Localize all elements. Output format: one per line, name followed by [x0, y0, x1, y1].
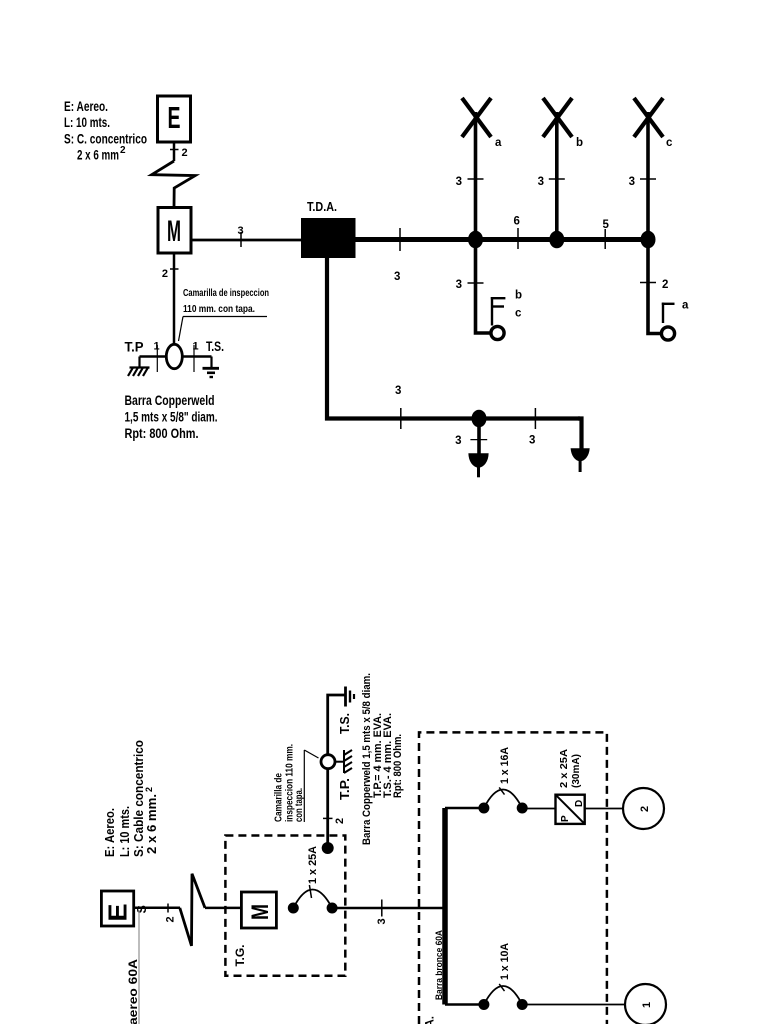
svg-text:b: b [515, 290, 522, 302]
box T.D.A. (tablero) filled [301, 218, 356, 258]
text Barra Copperweld rotated [361, 673, 404, 845]
svg-text:2: 2 [662, 279, 668, 291]
svg-text:3: 3 [456, 176, 462, 188]
svg-text:3: 3 [395, 385, 401, 397]
ground T.S. bars rotated [346, 687, 355, 707]
diff box P/D [556, 749, 586, 824]
outlet dome 1 [468, 453, 488, 467]
svg-text:E: Aereo.: E: Aereo. [103, 808, 117, 857]
svg-text:D: D [574, 800, 585, 807]
svg-text:1: 1 [154, 341, 160, 353]
wire M to TDA [191, 239, 302, 242]
ground T.P. hatched rotated [335, 750, 352, 773]
branch 10A wire [445, 1003, 484, 1006]
svg-text:3: 3 [629, 176, 635, 188]
ground bus horizontal [140, 355, 212, 358]
svg-text:L: 10 mts.: L: 10 mts. [64, 114, 110, 130]
svg-text:T.S.: T.S. [338, 713, 352, 734]
wire to diff box [522, 808, 556, 810]
svg-text:1: 1 [641, 1002, 653, 1008]
tick 2 below E [170, 149, 179, 151]
zigzag rotated [180, 874, 205, 946]
svg-text:2 x 25A: 2 x 25A [558, 749, 570, 788]
camarilla leader rotated [304, 750, 318, 758]
svg-text:Rpt: 800 Ohm.: Rpt: 800 Ohm. [125, 426, 199, 441]
junction dot 1 [468, 231, 483, 249]
lamp wire b [555, 112, 559, 240]
wire breaker to barra [332, 907, 445, 910]
tick 1 right [193, 345, 195, 372]
corner down to outlet 2 [578, 419, 582, 450]
tick 3 right segment [534, 408, 536, 429]
box M rotated [241, 892, 276, 928]
svg-text:1 x 16A: 1 x 16A [499, 747, 511, 784]
TDA down wire + bottom branch [327, 258, 580, 419]
svg-text:110 mm. con tapa.: 110 mm. con tapa. [183, 303, 255, 315]
tick 3 bottom branch [400, 408, 402, 429]
svg-text:1,5 mts x 5/8" diam.: 1,5 mts x 5/8" diam. [125, 410, 218, 425]
T.G. dashed box [225, 836, 345, 976]
svg-text:con tapa.: con tapa. [294, 788, 305, 822]
svg-text:a: a [682, 300, 689, 312]
svg-text:3: 3 [238, 225, 244, 237]
lamp X a [462, 98, 491, 137]
svg-text:2: 2 [182, 147, 188, 159]
svg-text:Camarilla de inspeccion: Camarilla de inspeccion [183, 287, 269, 299]
svg-text:6: 6 [514, 216, 520, 228]
svg-text:T.S.: T.S. [206, 339, 224, 354]
tick 3 lamp b [549, 178, 565, 180]
zigzag lightning [152, 161, 196, 207]
svg-text:Rpt: 800 Ohm.: Rpt: 800 Ohm. [392, 734, 404, 798]
svg-text:S: Cable concentrico: S: Cable concentrico [132, 740, 146, 857]
lamp X b [543, 98, 572, 137]
wire to circle 1 [522, 1004, 625, 1006]
svg-text:T.D.A.: T.D.A. [423, 1016, 437, 1024]
lamp wire c [646, 112, 650, 240]
camarilla underline rotated [303, 750, 305, 822]
ground T.S. (3 bars) [203, 357, 220, 378]
tick 3 after TDA [399, 228, 401, 251]
tick 2 on ground wire [323, 817, 333, 819]
camarilla leader [179, 317, 184, 342]
tick 6 [517, 228, 519, 249]
breaker 1x25A [288, 846, 338, 914]
svg-text:1: 1 [193, 341, 199, 353]
wire to circle 2 [585, 808, 623, 810]
svg-text:2 x 6 mm.: 2 x 6 mm. [145, 794, 159, 854]
svg-text:(30mA): (30mA) [570, 754, 582, 788]
svg-text:L: 10 mts.: L: 10 mts. [118, 806, 132, 857]
svg-text:E: E [103, 904, 133, 922]
svg-text:P: P [560, 815, 571, 822]
tick 2 [167, 904, 169, 913]
box E (acometida) [158, 96, 191, 142]
wire E to zigzag [173, 142, 176, 161]
tick 3 [381, 900, 383, 917]
svg-text:S: S [135, 905, 149, 913]
ground T.P. (hatched) [128, 357, 150, 377]
camarilla note rotated [274, 744, 306, 822]
junction dot 2 [549, 231, 564, 249]
wire zigzag to M [205, 907, 242, 910]
circle 1 [625, 984, 666, 1024]
text Barra Copperweld [125, 393, 218, 441]
ground tap dot [322, 842, 334, 854]
tick 3 [470, 439, 487, 441]
breaker 1x16A [478, 747, 527, 814]
svg-text:2: 2 [144, 787, 154, 792]
box E rotated [101, 891, 133, 926]
svg-text:2: 2 [334, 818, 346, 824]
circle 2 [623, 788, 664, 829]
svg-text:3: 3 [394, 271, 400, 283]
svg-text:1 x 10A: 1 x 10A [499, 943, 511, 980]
box M (medidor) [158, 208, 191, 254]
leader gray line aereo [138, 910, 140, 1024]
switch branch right (a) [648, 240, 661, 334]
camarilla circle bottom [321, 755, 335, 769]
svg-text:3: 3 [376, 918, 388, 924]
svg-text:2: 2 [165, 916, 177, 922]
big dashed box T.D.A. [419, 732, 607, 1024]
camarilla underline [183, 316, 267, 318]
wire E to zigzag [134, 907, 180, 910]
camarilla ellipse [166, 344, 182, 368]
legend text E/L/S [64, 98, 147, 163]
svg-text:E: Aereo.: E: Aereo. [64, 98, 108, 114]
svg-text:M: M [167, 215, 181, 248]
svg-text:2: 2 [120, 145, 126, 156]
svg-text:Barra Copperweld: Barra Copperweld [125, 393, 215, 408]
svg-text:c: c [666, 137, 673, 149]
svg-text:E: E [168, 100, 181, 135]
tick 2 [640, 282, 656, 284]
wire 2 below M [173, 253, 176, 345]
svg-text:M: M [247, 904, 274, 920]
outlet 1 drop [477, 419, 481, 455]
barra bronce bar [442, 808, 448, 1005]
svg-text:3: 3 [456, 279, 462, 291]
svg-text:a: a [495, 137, 502, 149]
branch 16A wire [445, 807, 484, 810]
svg-text:3: 3 [529, 435, 535, 447]
svg-text:T.P.: T.P. [338, 778, 352, 800]
tick 3 lamp c [640, 178, 656, 180]
lamp X c [634, 98, 663, 137]
svg-text:S: C. concentrico: S: C. concentrico [64, 131, 147, 147]
svg-text:Barra bronce 60A: Barra bronce 60A [434, 930, 444, 1000]
camarilla note text [183, 287, 269, 315]
switch symbol (a) [662, 303, 675, 323]
outlet circle left [491, 326, 504, 339]
svg-text:2: 2 [639, 806, 651, 812]
svg-text:Camarilla de: Camarilla de [274, 773, 285, 822]
outlet dome 2 [571, 448, 590, 461]
svg-text:T.D.A.: T.D.A. [307, 200, 337, 214]
switch branch left (b,c) [476, 240, 492, 334]
svg-text:3: 3 [455, 435, 461, 447]
lamp wire a [474, 112, 478, 240]
tick 3 [468, 282, 484, 284]
junction dot bottom [472, 410, 487, 428]
svg-text:c: c [515, 308, 522, 320]
svg-text:2: 2 [162, 268, 168, 280]
tick 3 lamp a [468, 178, 484, 180]
tick 2 below M [170, 268, 179, 270]
junction dot 3 [641, 231, 656, 249]
tick 3 on wire M-TDA [240, 232, 242, 247]
legend text rotated [103, 740, 159, 857]
main bus from TDA [356, 237, 652, 242]
ground wire up [328, 695, 345, 848]
svg-text:b: b [576, 137, 583, 149]
svg-text:T.G.: T.G. [233, 945, 247, 967]
tick 5 [604, 229, 606, 249]
switch symbol F (b,c) [491, 297, 506, 326]
svg-text:T.P: T.P [125, 340, 144, 355]
svg-text:3: 3 [538, 176, 544, 188]
svg-text:1 x 25A: 1 x 25A [307, 846, 319, 884]
svg-text:5: 5 [603, 219, 610, 231]
svg-text:2 x 6 mm: 2 x 6 mm [77, 147, 119, 163]
outlet circle right [661, 327, 674, 340]
svg-text:aereo 60A: aereo 60A [126, 959, 140, 1024]
tick 1 left [156, 345, 158, 372]
breaker 1x10A [478, 943, 527, 1010]
